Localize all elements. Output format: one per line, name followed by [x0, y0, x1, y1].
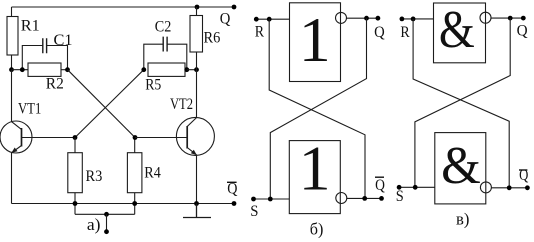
wire S input v — [399, 186, 435, 188]
node S junction v — [413, 185, 418, 190]
svg-text:R3: R3 — [86, 168, 103, 185]
transistor VT2 — [176, 117, 214, 155]
svg-text:R: R — [400, 24, 410, 41]
node bias terminal — [104, 229, 109, 234]
wire U4 output — [491, 187, 527, 189]
svg-text:Q: Q — [375, 177, 385, 194]
node VT2 collector junction — [194, 67, 199, 72]
wire C2 right bracket — [167, 44, 187, 69]
svg-text:1: 1 — [299, 133, 331, 204]
wire R input v — [402, 18, 434, 20]
node Q terminal v — [521, 16, 526, 21]
resistor R2 — [28, 63, 61, 76]
gate U2 box — [289, 141, 340, 214]
node Qbar terminal b — [379, 196, 384, 201]
svg-text:C1: C1 — [54, 32, 73, 49]
wire top rail circuit a — [12, 6, 235, 8]
node R3 bottom — [73, 201, 78, 206]
node R2 right — [65, 67, 70, 72]
wire cross coupling R2 to VT2 base — [68, 70, 136, 138]
wire R4 top stub — [134, 138, 136, 153]
wire U3 output — [491, 17, 523, 19]
node R2 left — [20, 67, 25, 72]
resistor R5 — [148, 63, 185, 76]
svg-text:S: S — [250, 203, 258, 220]
svg-text:S: S — [396, 188, 404, 205]
node VT1 base junction — [73, 135, 78, 140]
gate U3 output bubble — [480, 12, 491, 23]
svg-text:R4: R4 — [144, 165, 161, 182]
wire feedback R to Qbar b — [269, 19, 365, 198]
node VT1 collector junction — [9, 67, 14, 72]
wire VT2 emitter rail — [196, 155, 198, 204]
node Q junction v — [508, 16, 513, 21]
svg-text:1: 1 — [299, 4, 331, 75]
wire C1 left bracket — [22, 46, 43, 70]
gate U3 box — [434, 3, 486, 63]
wire R3 top stub — [74, 138, 76, 153]
gate U1 box — [290, 3, 341, 82]
gate U2 output bubble — [336, 193, 347, 204]
ground — [183, 204, 211, 218]
node Qbar terminal a — [232, 201, 237, 206]
label Qbar output v — [519, 167, 528, 184]
wire cross coupling R5 to VT1 base — [75, 70, 144, 138]
wire feedback Q to S v — [415, 18, 510, 187]
node Qbar junction v — [507, 185, 512, 190]
gate U1 output bubble — [336, 12, 347, 23]
wire U2 output — [347, 197, 382, 199]
gate U4 box — [435, 133, 486, 204]
label Qbar output b — [375, 177, 385, 194]
svg-text:&: & — [441, 137, 481, 195]
svg-text:в): в) — [456, 209, 469, 228]
svg-text:R6: R6 — [204, 30, 221, 47]
node R terminal v — [400, 17, 405, 22]
node bias tap — [104, 212, 109, 217]
svg-text:R1: R1 — [21, 17, 40, 34]
wire R1 to node — [11, 55, 13, 70]
wire S input b — [254, 198, 290, 200]
svg-text:R5: R5 — [145, 77, 161, 94]
node R6 top junction — [195, 5, 200, 10]
wire R2 right to node — [61, 69, 68, 71]
svg-text:а): а) — [87, 215, 101, 234]
node S junction b — [268, 197, 273, 202]
svg-text:C2: C2 — [155, 19, 172, 36]
wire C2 left bracket — [144, 44, 163, 69]
node Q junction b — [364, 16, 369, 21]
svg-text:б): б) — [310, 220, 324, 239]
wire VT1 base lead — [22, 137, 76, 139]
node Q terminal b — [376, 16, 381, 21]
wire R5 to rail — [187, 69, 197, 71]
svg-text:Q: Q — [517, 23, 528, 40]
node R junction v — [411, 17, 416, 22]
node R terminal b — [254, 17, 259, 22]
label Qbar output a — [227, 181, 237, 198]
wire bias stub — [106, 214, 108, 231]
capacitor C1 — [43, 38, 47, 53]
gate U4 output bubble — [480, 182, 491, 193]
wire R3 bottom stub — [74, 193, 76, 215]
node Qbar junction b — [362, 196, 367, 201]
wire node to R2 — [12, 69, 29, 71]
transistor VT1 — [0, 121, 32, 153]
node S terminal b — [251, 197, 256, 202]
svg-text:R: R — [255, 23, 265, 40]
wire VT2 base lead — [135, 137, 187, 139]
wire R4 bottom stub — [134, 193, 136, 215]
svg-text:VT1: VT1 — [18, 101, 41, 118]
wire R6 to VT2 — [196, 52, 198, 118]
svg-text:Q: Q — [220, 10, 231, 27]
svg-text:&: & — [439, 1, 475, 59]
wire left rail lower — [11, 153, 13, 204]
wire left rail to VT1 — [11, 70, 13, 122]
wire feedback Q to S b — [270, 18, 366, 199]
node VT2 base junction — [133, 135, 138, 140]
node R junction b — [267, 17, 272, 22]
svg-text:Q: Q — [374, 24, 385, 41]
node R4 bottom — [132, 201, 137, 206]
resistor R4 — [127, 153, 141, 193]
node ground junction — [194, 201, 199, 206]
wire U1 output — [347, 17, 378, 19]
wire R6 top stub — [196, 7, 198, 16]
svg-text:VT2: VT2 — [170, 96, 193, 113]
wire feedback R to Qbar v — [413, 19, 509, 188]
capacitor C2 — [163, 37, 167, 52]
svg-text:Q: Q — [227, 181, 237, 198]
node S terminal v — [397, 185, 402, 190]
svg-text:R2: R2 — [46, 75, 64, 92]
resistor R6 — [190, 16, 203, 53]
node Qbar terminal v — [525, 185, 530, 190]
wire bottom rail circuit a — [12, 203, 235, 205]
node Q terminal a — [232, 5, 237, 10]
node R5 right — [184, 67, 189, 72]
node R5 left — [141, 67, 146, 72]
wire bias U link — [75, 213, 135, 215]
resistor R1 — [7, 17, 18, 56]
wire C1 right bracket — [47, 46, 68, 70]
wire left rail upper — [11, 7, 13, 17]
wire R input b — [256, 18, 289, 20]
resistor R3 — [68, 153, 83, 193]
